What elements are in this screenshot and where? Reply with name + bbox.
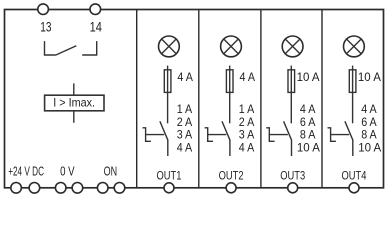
svg-text:3 A: 3 A bbox=[177, 129, 193, 142]
svg-text:10 A: 10 A bbox=[358, 71, 381, 84]
svg-text:OUT3: OUT3 bbox=[280, 169, 305, 183]
svg-text:4 A: 4 A bbox=[177, 141, 193, 154]
svg-text:I > Imax.: I > Imax. bbox=[53, 96, 95, 109]
svg-text:OUT2: OUT2 bbox=[219, 169, 244, 183]
svg-text:0 V: 0 V bbox=[60, 165, 75, 179]
svg-text:10 A: 10 A bbox=[358, 141, 381, 154]
svg-text:10 A: 10 A bbox=[297, 71, 320, 84]
svg-text:4 A: 4 A bbox=[239, 141, 255, 154]
svg-text:4 A: 4 A bbox=[361, 103, 377, 116]
svg-text:14: 14 bbox=[90, 19, 103, 34]
svg-text:+24 V DC: +24 V DC bbox=[8, 165, 44, 179]
svg-text:2 A: 2 A bbox=[239, 116, 255, 129]
svg-text:10 A: 10 A bbox=[297, 141, 320, 154]
svg-text:4 A: 4 A bbox=[240, 71, 256, 84]
svg-text:4 A: 4 A bbox=[300, 103, 316, 116]
svg-text:3 A: 3 A bbox=[239, 129, 255, 142]
svg-text:ON: ON bbox=[104, 165, 118, 179]
svg-text:1 A: 1 A bbox=[177, 103, 193, 116]
svg-text:8 A: 8 A bbox=[361, 129, 377, 142]
svg-text:4 A: 4 A bbox=[177, 71, 193, 84]
svg-text:OUT4: OUT4 bbox=[342, 169, 367, 183]
svg-text:8 A: 8 A bbox=[300, 129, 316, 142]
svg-text:6 A: 6 A bbox=[361, 116, 377, 129]
svg-text:13: 13 bbox=[40, 19, 51, 34]
svg-text:OUT1: OUT1 bbox=[157, 169, 182, 183]
svg-text:6 A: 6 A bbox=[300, 116, 316, 129]
svg-text:1 A: 1 A bbox=[239, 103, 255, 116]
svg-text:2 A: 2 A bbox=[177, 116, 193, 129]
